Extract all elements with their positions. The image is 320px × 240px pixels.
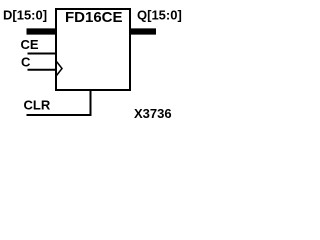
clock triangle (57, 62, 63, 76)
svg-text:CE: CE (21, 37, 39, 52)
pin CLR wire (27, 90, 91, 115)
svg-text:FD16CE: FD16CE (65, 9, 123, 26)
svg-text:Q[15:0]: Q[15:0] (137, 8, 182, 23)
svg-text:D[15:0]: D[15:0] (3, 8, 47, 23)
pin Q[15:0] bus (130, 28, 156, 34)
pin D[15:0] bus (27, 28, 58, 34)
svg-text:X3736: X3736 (134, 106, 172, 121)
pin CE (28, 53, 58, 55)
svg-text:CLR: CLR (24, 98, 51, 113)
pin C (28, 69, 58, 71)
symbol body FD16CE (56, 9, 130, 90)
svg-text:C: C (21, 55, 31, 70)
